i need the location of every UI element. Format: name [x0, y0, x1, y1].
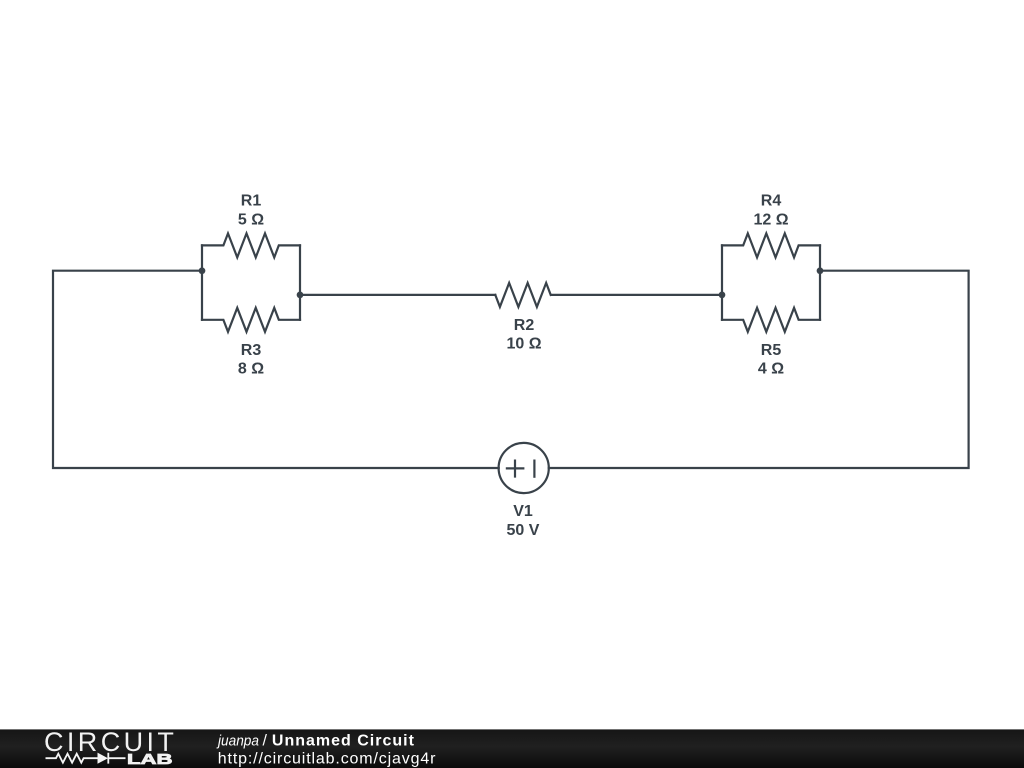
node A junction dot left block left: [199, 267, 206, 274]
logo diode triangle: [98, 753, 109, 764]
wire middle node A to R2: [300, 294, 495, 296]
wire left block left edge: [201, 245, 203, 319]
svg-text:http://circuitlab.com/cjavg4r: http://circuitlab.com/cjavg4r: [218, 751, 437, 768]
V1 plus sign: [507, 461, 523, 477]
resistor R2: [495, 283, 550, 307]
svg-text:/: /: [263, 732, 268, 749]
svg-text:LAB: LAB: [127, 751, 173, 768]
node B junction dot right block left: [719, 292, 726, 299]
svg-text:10 Ω: 10 Ω: [506, 336, 541, 353]
svg-text:Unnamed Circuit: Unnamed Circuit: [272, 732, 415, 749]
resistor R5: [722, 308, 820, 332]
svg-text:V1: V1: [513, 503, 533, 520]
wire R2 to node B: [551, 294, 722, 296]
wire right block left edge: [721, 245, 723, 319]
svg-text:R5: R5: [761, 342, 782, 359]
resistor R4: [722, 233, 820, 257]
svg-text:4 Ω: 4 Ω: [758, 361, 784, 378]
svg-text:juanpa: juanpa: [216, 732, 259, 749]
svg-text:R4: R4: [761, 193, 782, 210]
svg-text:5 Ω: 5 Ω: [238, 212, 264, 229]
svg-text:12 Ω: 12 Ω: [753, 212, 788, 229]
logo resistor-diode squiggle: [46, 753, 126, 764]
V1 minus bar: [533, 461, 535, 477]
svg-text:50 V: 50 V: [507, 522, 540, 539]
node junction dot left block right: [297, 292, 304, 299]
resistor R1: [202, 233, 300, 257]
resistor R3: [202, 308, 300, 332]
svg-text:R1: R1: [241, 193, 262, 210]
wire left outer loop: [53, 271, 499, 468]
wire right outer loop: [549, 271, 969, 468]
node junction dot right block right: [817, 267, 824, 274]
svg-text:8 Ω: 8 Ω: [238, 361, 264, 378]
wire right block right edge: [819, 245, 821, 319]
wire left block right edge: [299, 245, 301, 319]
svg-text:R3: R3: [241, 342, 262, 359]
svg-text:R2: R2: [514, 317, 535, 334]
voltage source V1 circle: [499, 443, 549, 493]
